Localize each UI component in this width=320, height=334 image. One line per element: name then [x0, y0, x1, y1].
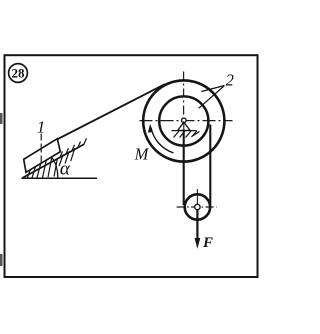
svg-text:1: 1 — [37, 117, 46, 136]
svg-text:M: M — [134, 144, 150, 163]
svg-text:F: F — [202, 235, 213, 251]
svg-text:28: 28 — [12, 65, 26, 80]
svg-text:2: 2 — [226, 70, 234, 89]
